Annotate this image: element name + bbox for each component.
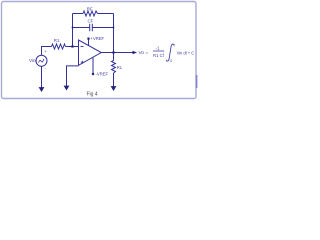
junction node R1/feedback <box>71 45 73 47</box>
wire RF right <box>98 13 114 15</box>
-VREF terminal dot <box>92 73 94 75</box>
svg-text:Fig 4: Fig 4 <box>87 91 98 97</box>
+VREF stub <box>88 39 90 46</box>
wire RL to ground <box>113 73 115 87</box>
output arrow head <box>133 51 138 54</box>
svg-text:Vo =: Vo = <box>139 50 149 56</box>
wire CF right <box>92 27 113 29</box>
frame border darker segment right <box>196 75 198 88</box>
svg-text:-VREF: -VREF <box>96 71 109 76</box>
ground arrow under Vin <box>39 87 45 92</box>
source V1 sine <box>39 59 44 63</box>
wire CF left <box>73 27 90 29</box>
wire R1 to op-amp <box>66 46 79 48</box>
op-amp plus sign <box>81 61 84 64</box>
+VREF terminal dot <box>87 38 89 40</box>
integral sign <box>167 44 174 61</box>
resistor RF <box>83 11 98 16</box>
wire RF left <box>73 13 84 15</box>
svg-text:Vin: Vin <box>29 58 36 63</box>
svg-text:RL: RL <box>117 65 123 70</box>
wire feedback right vertical <box>113 14 115 53</box>
resistor RL <box>112 61 116 74</box>
formula fraction bar <box>153 50 164 53</box>
svg-text:t: t <box>174 44 175 48</box>
ground arrow under RL <box>111 86 117 91</box>
ground arrow under op-amp <box>64 86 70 91</box>
source V1 circle <box>36 55 47 66</box>
svg-text:RF: RF <box>87 6 93 11</box>
-VREF stub <box>92 58 94 74</box>
op-amp U1 <box>79 40 102 65</box>
svg-text:+VREF: +VREF <box>91 36 105 41</box>
svg-text:CF: CF <box>88 18 94 23</box>
svg-text:-1: -1 <box>156 45 160 50</box>
op-amp minus sign <box>81 46 84 48</box>
capacitor CF <box>90 24 93 32</box>
junction node output <box>112 51 114 53</box>
frame border <box>2 2 197 99</box>
wire non-inverting input <box>67 66 79 86</box>
junction node CF right <box>113 27 115 29</box>
wire output <box>102 52 134 54</box>
wire RL top <box>113 53 115 61</box>
svg-text:Vin dt + C: Vin dt + C <box>177 51 195 56</box>
junction node CF left <box>72 27 74 29</box>
resistor R1 <box>52 44 66 49</box>
wire input node vertical <box>72 14 74 47</box>
svg-text:R1: R1 <box>54 38 60 43</box>
wire Vin to ground <box>41 66 43 87</box>
wire Vin to R1 <box>42 47 52 56</box>
svg-text:0: 0 <box>170 59 172 63</box>
svg-text:R1 Cf: R1 Cf <box>153 53 165 58</box>
